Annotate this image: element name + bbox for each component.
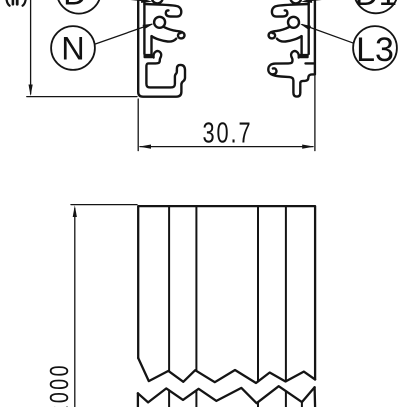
svg-text:30.7: 30.7: [202, 117, 252, 149]
leader line L3: [302, 25, 354, 44]
left upper conductor: [152, 0, 163, 3]
side view groove line 4: [285, 206, 287, 381]
label circle D: [57, 0, 101, 14]
side view upper break zigzag: [138, 358, 315, 383]
right conductor channel left line: [300, 36, 302, 54]
arrow 2000 up: [73, 205, 77, 217]
right upper conductor: [290, 0, 301, 3]
right channel finger and cap curl: [268, 51, 298, 74]
height dimension line: [30, 0, 32, 94]
leader line D1: [305, 0, 355, 1]
left middle claw top edge: [164, 27, 185, 39]
right foot bar leg and wall joint: [271, 74, 315, 96]
arrow height dim down: [29, 85, 33, 97]
dimension line 2000: [74, 209, 76, 407]
side view groove line 3: [257, 206, 259, 381]
left channel end block: [144, 54, 153, 58]
left middle claw bottom edge: [152, 36, 177, 41]
left channel finger and foot meander: [146, 51, 177, 87]
right inner wall: [308, 0, 310, 54]
left inner wall: [143, 0, 145, 54]
arrowhead leader D: [141, 0, 152, 3]
label circle L3: [353, 26, 397, 70]
side view outline: [138, 206, 315, 379]
side view groove line 2: [195, 206, 197, 371]
lower piece right edge: [313, 387, 316, 407]
arrow 30.7 left: [139, 145, 151, 149]
left lower conductor: [154, 17, 165, 28]
left upper claw: [144, 4, 181, 17]
svg-text:D1: D1: [355, 0, 397, 12]
right upper claw: [272, 4, 309, 17]
label circle D1: [354, 0, 398, 13]
track profile right outer wall: [314, 0, 316, 74]
arrowhead leader L3: [300, 24, 311, 31]
lower piece left edge: [137, 393, 139, 407]
side view lower piece zigzag: [138, 386, 315, 403]
height dimension extension line: [27, 96, 137, 98]
extension line 2000 top: [71, 204, 137, 206]
right lower conductor: [288, 17, 299, 28]
label circle N: [51, 26, 95, 70]
track profile left outer wall and boot: [138, 0, 185, 97]
dimension line 30.7: [140, 146, 313, 148]
dimension text (41) partially visible: glyph bottom tips: [7, 0, 26, 6]
svg-text:2000: 2000: [44, 363, 73, 407]
side view groove line 1: [168, 206, 170, 371]
lower piece groove stubs: [168, 390, 170, 407]
right middle claw top edge: [269, 27, 290, 39]
leader line N: [95, 24, 152, 44]
right channel end block: [299, 54, 308, 58]
dimension text 30.7: [202, 117, 252, 149]
svg-text:D: D: [63, 0, 87, 11]
extension line right below profile: [314, 76, 316, 151]
leader line D: [98, 0, 149, 1]
dimension text 2000 rotated: [44, 363, 73, 407]
arrowhead leader D1: [301, 0, 312, 3]
left conductor channel right line: [150, 36, 152, 54]
arrowhead leader N: [143, 24, 154, 30]
right slot top line: [306, 62, 315, 64]
svg-text:L3: L3: [356, 31, 394, 69]
svg-text:N: N: [61, 31, 84, 67]
arrow 30.7 right: [302, 145, 314, 149]
right middle claw bottom edge: [277, 36, 302, 41]
extension line left below profile: [137, 99, 139, 151]
